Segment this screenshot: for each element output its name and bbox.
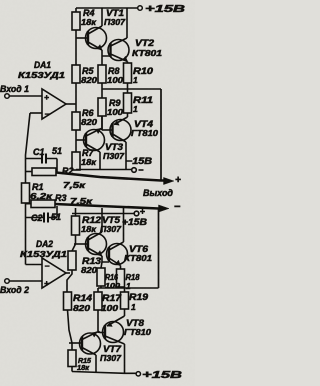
resistor R15	[68, 350, 76, 372]
+15V top rail	[76, 7, 137, 9]
resistor R1	[22, 183, 30, 265]
terminal input 2	[5, 279, 10, 284]
transistor VT2	[108, 8, 129, 62]
transistor VT5	[74, 208, 107, 256]
wire DA1 output to R5/R6 junction	[66, 103, 76, 105]
+15V mid rail (bottom channel)	[72, 213, 134, 215]
wire output + line (Vyhod plus)	[56, 89, 174, 185]
resistor R16	[97, 268, 105, 288]
resistor R11	[124, 89, 132, 117]
resistor R2	[26, 168, 57, 176]
resistor R18	[117, 266, 125, 289]
resistor R13	[67, 251, 76, 292]
transistor VT4	[102, 117, 131, 170]
wire output node row top channel	[102, 88, 161, 90]
terminal input 1	[5, 94, 10, 99]
capacitor C2	[26, 206, 58, 223]
bottom rail wire	[72, 372, 136, 374]
terminal +15V top	[138, 6, 143, 11]
wire DA2 output to R13/R14 junction	[66, 272, 70, 274]
wire DA1 minus input feedback column	[26, 113, 31, 183]
transistor VT3	[76, 129, 105, 170]
resistor R4	[72, 8, 80, 65]
resistor R12	[72, 208, 80, 251]
resistor R14	[64, 292, 73, 350]
resistor R6	[72, 112, 80, 152]
terminal +15V mid	[134, 209, 145, 216]
transistor VT8	[100, 316, 125, 373]
resistor R17	[94, 288, 102, 333]
node VT5 emitter / VT6 base junction	[101, 256, 109, 268]
resistor R7	[72, 152, 80, 170]
resistor R3	[26, 200, 56, 208]
op-amp DA2	[9, 258, 66, 288]
resistor R5	[72, 65, 80, 112]
terminal -15V	[132, 168, 144, 173]
resistor R19	[121, 288, 129, 316]
wire VT3 emitter to VT4 base node	[101, 116, 102, 130]
-15V rail wire	[76, 169, 132, 171]
transistor VT6	[107, 208, 128, 266]
terminal +15V bottom	[136, 372, 140, 376]
transistor VT1	[76, 8, 107, 50]
wire output node row bottom channel	[98, 287, 159, 289]
wire output - line (Vyhod minus)	[55, 204, 169, 288]
node VT1 emitter / VT2 base junction	[102, 50, 111, 65]
resistor R10	[124, 62, 132, 90]
transistor VT7	[69, 332, 101, 372]
resistor R8	[98, 65, 106, 89]
capacitor C1	[26, 154, 58, 172]
op-amp DA1	[9, 89, 66, 119]
resistor R9	[98, 89, 106, 130]
